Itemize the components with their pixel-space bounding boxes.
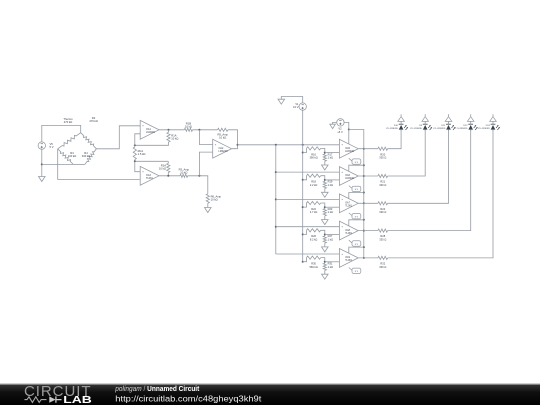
svg-text:LTL-2R3KRD: LTL-2R3KRD: [478, 128, 490, 130]
svg-text:10 kΩ: 10 kΩ: [185, 125, 192, 129]
resistor R27 (divider row 4): [323, 236, 326, 243]
wire tap to comparator row 4: [325, 234, 340, 236]
wire signal to comparator row 4: [276, 226, 340, 228]
wire gain node B to R2A: [135, 160, 169, 162]
svg-text:LM324N: LM324N: [345, 177, 354, 180]
resistor R23 (divider row 3): [323, 209, 326, 216]
resistor R1B: [184, 128, 192, 131]
wire OA1 output: [159, 129, 185, 131]
LED D10 (row 1): [399, 125, 404, 130]
resistor RG1: [133, 147, 136, 160]
svg-text:10 kΩ: 10 kΩ: [211, 198, 218, 202]
junction source-ground node: [41, 163, 43, 165]
wire to OA2 -in: [199, 130, 212, 145]
wire R1B to R5_Amp: [193, 129, 218, 131]
resistor R31 (divider row 5): [323, 263, 326, 270]
svg-text:4.7 kΩ: 4.7 kΩ: [310, 210, 318, 214]
svg-text:LM324N: LM324N: [345, 150, 354, 153]
wire RG1 top lead: [134, 145, 136, 147]
LED D12 (row 4): [468, 125, 473, 130]
svg-text:LAB: LAB: [63, 395, 92, 405]
wire ground node to bridge bottom: [42, 163, 74, 165]
ground row 4: [322, 247, 329, 252]
op-amp OA7 (comparator row 3): [339, 194, 358, 213]
wire to LED column row 4: [388, 130, 471, 231]
wire to ground row 3: [324, 216, 326, 220]
wire R2A bottom lead: [167, 173, 169, 176]
svg-text:LTL-2R3KRD: LTL-2R3KRD: [410, 128, 422, 130]
wire V+ pin branch row 3: [349, 193, 364, 199]
resistor R6_Amp: [206, 194, 209, 204]
op-amp OA6 (comparator row 2): [339, 167, 358, 186]
logo resistor-diode symbol: [25, 397, 47, 403]
junction OA2 -in tap: [198, 129, 200, 131]
svg-text:330 Ω: 330 Ω: [379, 210, 386, 214]
voltage source V1: [299, 103, 306, 110]
wire to LED column row 2: [388, 130, 426, 176]
ground row 1: [322, 165, 329, 170]
LED D9 (row 2): [423, 125, 428, 130]
wire V+ pin branch row 4: [349, 220, 364, 226]
junction divider tap row 5: [324, 261, 326, 263]
svg-text:10 V: 10 V: [293, 105, 299, 109]
junction V1 bus row 2: [302, 179, 304, 181]
wire bridge left vertex to OA3 +in: [58, 149, 140, 180]
svg-text:330 kΩ: 330 kΩ: [82, 154, 91, 158]
footer bar: [0, 384, 540, 405]
wire R2A top lead: [167, 161, 169, 163]
wire R6_Amp to ground: [207, 203, 209, 207]
wire tap to comparator row 3: [325, 206, 340, 208]
svg-text:330 Ω: 330 Ω: [379, 156, 386, 160]
wire to ground row 2: [324, 189, 326, 193]
ground G3: [278, 99, 285, 104]
junction OA2 +in tap: [198, 175, 200, 177]
svg-text:LTL-2R3KRD: LTL-2R3KRD: [456, 128, 468, 130]
resistor R17 (divider row 1): [323, 154, 326, 161]
junction output bus row 5: [363, 257, 365, 259]
svg-text:470 kΩ: 470 kΩ: [64, 120, 73, 124]
wire OA3 output: [159, 175, 180, 177]
junction V1 bus row 5: [302, 261, 304, 263]
junction V1 bus row 1: [302, 152, 304, 154]
svg-text:1 kΩ: 1 kΩ: [328, 156, 333, 160]
junction supply branch row 3: [363, 192, 365, 194]
junction output bus row 4: [363, 230, 365, 232]
svg-text:330 Ω: 330 Ω: [379, 183, 386, 187]
svg-text:LM324N: LM324N: [219, 150, 228, 153]
svg-text:1 kΩ: 1 kΩ: [328, 265, 333, 269]
wire signal to comparator row 2: [276, 171, 340, 173]
wire bridge bottom segment: [73, 163, 85, 165]
resistor R32 (LED series row 5): [378, 256, 388, 259]
ground G1: [39, 177, 46, 182]
svg-text:10 kΩ: 10 kΩ: [180, 171, 187, 175]
voltage flag row 3: [349, 213, 353, 216]
LED D13 (row 5): [491, 125, 496, 130]
junction OA1 out / R1A: [168, 129, 170, 131]
wire V1 top to ground: [281, 97, 302, 103]
wire comparator output row 5: [358, 257, 378, 259]
op-amp OA3: [140, 166, 159, 185]
junction divider tap row 4: [324, 234, 326, 236]
wire signal to comparator row 5: [276, 253, 340, 255]
junction V1 node: [302, 144, 304, 146]
resistor R26 (divider row 4): [307, 229, 321, 232]
wire to ground row 5: [324, 270, 326, 274]
resistor R22 (divider row 3): [307, 201, 321, 204]
voltage flag row 1: [349, 158, 353, 161]
resistor R28 (LED series row 4): [378, 229, 388, 232]
wire tap to comparator row 1: [325, 152, 340, 154]
resistor R3 (bridge bottom-left): [58, 149, 74, 165]
resistor R18 (divider row 2): [307, 174, 321, 177]
svg-text:5 V: 5 V: [355, 189, 359, 191]
svg-text:10 kΩ: 10 kΩ: [171, 137, 178, 141]
junction divider tap row 3: [324, 206, 326, 208]
svg-text:330 Ω: 330 Ω: [379, 238, 386, 242]
svg-text:470 kΩ: 470 kΩ: [89, 119, 98, 123]
op-amp OA8 (comparator row 4): [339, 221, 358, 240]
junction signal bus top: [275, 144, 277, 146]
resistor R19 (divider row 2): [323, 181, 326, 188]
svg-text:330 Ω: 330 Ω: [379, 265, 386, 269]
voltage flag row 4: [349, 240, 353, 243]
wire OA2 output jog: [232, 145, 238, 149]
svg-text:390 kΩ: 390 kΩ: [309, 156, 317, 160]
voltage flag row 5: [349, 268, 353, 271]
wire V+ pin branch row 2: [349, 165, 364, 171]
svg-text:LM324N: LM324N: [146, 131, 155, 134]
wire bridge right vertex to OA1 +in: [96, 126, 140, 149]
svg-text:+5 V: +5 V: [337, 130, 343, 134]
junction divider tap row 2: [324, 179, 326, 181]
wire V1 tap row 3: [303, 203, 307, 207]
wire divider node row 1: [321, 148, 325, 154]
svg-text:TL081: TL081: [345, 259, 352, 262]
wire comparator output row 3: [358, 202, 378, 204]
voltage source V5: [38, 142, 45, 149]
wire V2- to ground: [333, 122, 337, 124]
svg-text:TL081: TL081: [345, 205, 352, 208]
junction V1 bus row 3: [302, 206, 304, 208]
wire divider node row 3: [321, 203, 325, 209]
wire divider node row 5: [321, 258, 325, 264]
junction supply branch row 2: [363, 164, 365, 166]
resistor R5_Amp: [218, 128, 228, 131]
svg-text:1.5 kΩ: 1.5 kΩ: [138, 152, 146, 156]
wire comparator output row 1: [358, 148, 378, 150]
wire signal to comparator row 3: [276, 198, 340, 200]
op-amp OA5 (comparator row 1): [339, 139, 358, 158]
wire signal bus vertical: [275, 145, 277, 254]
op-amp OA9 (comparator row 5): [339, 249, 358, 268]
resistor R16 (divider row 1): [307, 147, 321, 150]
wire to LED column row 3: [388, 130, 449, 203]
junction OA2 out / feedback: [237, 144, 239, 146]
resistor R2 (bridge top-right): [81, 133, 97, 149]
svg-text:2.2 kΩ: 2.2 kΩ: [310, 183, 318, 187]
wire to LED column row 5: [388, 130, 493, 258]
wire to LED column row 1: [388, 130, 402, 149]
resistor R2A: [167, 163, 170, 172]
wire V1 tap row 2: [303, 176, 307, 180]
wire node B to OA3 -in: [135, 161, 140, 171]
junction V2 rail tap row 1: [348, 129, 350, 131]
resistor R30 (divider row 5): [307, 256, 321, 259]
resistor R20 (LED series row 1): [378, 147, 388, 150]
wire V+ pin row 1: [348, 130, 350, 144]
svg-text:TL081: TL081: [146, 177, 153, 180]
wire divider node row 4: [321, 230, 325, 236]
wire V5- down: [41, 149, 43, 176]
junction supply branch row 5: [363, 246, 365, 248]
svg-text:LTL-2R3KRD: LTL-2R3KRD: [386, 128, 398, 130]
voltage source V2: [337, 119, 344, 126]
junction output bus row 3: [363, 202, 365, 204]
wire R3_Amp to R6_Amp: [188, 176, 208, 194]
svg-text:5 V: 5 V: [50, 145, 54, 149]
svg-text:100 kΩ: 100 kΩ: [68, 154, 77, 158]
wire tap to comparator row 2: [325, 179, 340, 181]
svg-text:5 V: 5 V: [355, 271, 359, 273]
junction output bus row 1: [363, 148, 365, 150]
wire V+ pin branch row 5: [349, 247, 364, 253]
wire tap to comparator row 5: [325, 261, 340, 263]
wire V2 supply bus: [349, 130, 364, 258]
svg-text:8.2 kΩ: 8.2 kΩ: [310, 238, 318, 242]
LED D11 (row 3): [446, 125, 451, 130]
voltage flag row 2: [349, 186, 353, 189]
junction divider tap row 1: [324, 152, 326, 154]
wire V2+ to rail: [344, 122, 349, 129]
junction gain node B: [134, 160, 136, 162]
junction V1 bus row 4: [302, 233, 304, 235]
ground G2: [205, 208, 212, 213]
ground row 5: [322, 274, 329, 279]
ground row 3: [322, 220, 329, 225]
wire V5+ to bridge top: [42, 125, 81, 141]
wire R1A bottom to gain node: [135, 142, 169, 145]
ground G4: [330, 124, 336, 128]
wire OA2 +in down: [199, 152, 212, 176]
wire OA2 output to comparator bus: [238, 144, 340, 146]
wire divider node row 2: [321, 176, 325, 182]
resistor R4 (bridge bottom-right): [85, 149, 97, 165]
wire to ground row 1: [324, 161, 326, 165]
op-amp OA1: [140, 120, 159, 139]
wire V1 tap row 5: [303, 258, 307, 262]
svg-text:5 V: 5 V: [355, 244, 359, 246]
junction output bus row 2: [363, 175, 365, 177]
svg-text:1 kΩ: 1 kΩ: [328, 238, 333, 242]
resistor R21 (LED series row 2): [378, 174, 388, 177]
svg-text:polingam / Unnamed Circuit: polingam / Unnamed Circuit: [114, 386, 200, 393]
wire comparator output row 2: [358, 175, 378, 177]
wire to ground row 4: [324, 243, 326, 247]
resistor R1A: [167, 132, 170, 142]
junction signal bus row 4: [275, 226, 277, 228]
svg-text:LTL-2R3KRD: LTL-2R3KRD: [433, 128, 445, 130]
svg-text:1 kΩ: 1 kΩ: [328, 210, 333, 214]
wire V1 reference bus: [302, 110, 304, 261]
resistor R24 (LED series row 3): [378, 202, 388, 205]
wire R5_Amp feedback down: [228, 130, 238, 145]
junction signal bus row 3: [275, 198, 277, 200]
ground row 2: [322, 192, 329, 197]
wire OA1 -in feedback: [135, 134, 140, 146]
wire V1 tap row 1: [303, 148, 307, 152]
wire V1 tap row 4: [303, 230, 307, 234]
wire R1A top lead: [168, 130, 170, 133]
resistor R3_Amp: [180, 174, 188, 177]
junction gain node A: [134, 144, 136, 146]
svg-text:5 V: 5 V: [355, 162, 359, 164]
junction signal bus row 2: [275, 171, 277, 173]
svg-text:TL081: TL081: [345, 232, 352, 235]
junction OA3 out / R2A: [167, 175, 169, 177]
resistor Thermo (bridge top-left): [58, 133, 81, 149]
svg-text:10 kΩ: 10 kΩ: [219, 136, 226, 140]
op-amp OA2: [213, 139, 232, 158]
svg-text:560 kΩ: 560 kΩ: [309, 265, 317, 269]
svg-text:10 kΩ: 10 kΩ: [159, 167, 166, 171]
wire comparator output row 4: [358, 230, 378, 232]
svg-text:5 V: 5 V: [355, 217, 359, 219]
junction supply branch row 4: [363, 219, 365, 221]
svg-text:http://circuitlab.com/c48gheyq: http://circuitlab.com/c48gheyq3kh9t: [115, 394, 262, 403]
svg-text:1 kΩ: 1 kΩ: [328, 183, 333, 187]
